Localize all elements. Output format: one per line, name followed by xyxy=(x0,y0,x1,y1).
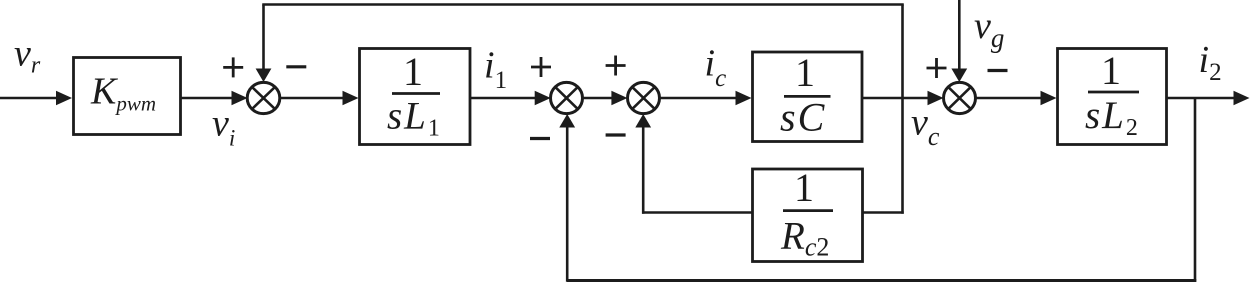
wire 1/sL2 to output xyxy=(1167,97,1237,100)
svg-text:ic: ic xyxy=(705,43,727,93)
plus sign at sum3 xyxy=(606,56,626,76)
wire 1/sL1 to sum2 xyxy=(470,97,537,100)
wire vc tap vertical xyxy=(901,5,904,214)
arrowhead into 1/sL2 xyxy=(1041,91,1057,106)
arrowhead into sum2 bottom xyxy=(559,114,575,128)
plus sign at sum4 xyxy=(927,58,947,78)
wire sum4 to block 1/sL2 xyxy=(976,97,1044,100)
minus sign at sum2 xyxy=(530,137,550,140)
plus sign at sum2 xyxy=(531,57,551,77)
summing junction sum3 circle xyxy=(628,82,660,113)
arrowhead into sum2 left xyxy=(535,91,551,106)
arrowhead into sum4 left xyxy=(928,91,944,106)
wire vg input vertical xyxy=(958,0,961,70)
minus sign at sum4 xyxy=(988,69,1008,72)
svg-text:vc: vc xyxy=(911,102,940,152)
svg-text:sC: sC xyxy=(780,95,826,140)
summing junction sum2 circle xyxy=(551,82,583,113)
arrowhead into sum3 left xyxy=(611,91,627,106)
wire output tap vertical xyxy=(1194,98,1197,282)
wire bottom feedback horizontal xyxy=(567,279,1196,282)
wire Rc2 input horizontal xyxy=(861,211,904,214)
wire sum2 to sum3 xyxy=(583,97,615,100)
wire Kpwm to sum1 xyxy=(180,97,234,100)
plus sign at sum1 xyxy=(223,57,243,77)
wire input to Kpwm xyxy=(0,97,60,100)
svg-text:1: 1 xyxy=(795,50,815,95)
svg-text:1: 1 xyxy=(794,165,814,210)
svg-text:i1: i1 xyxy=(484,45,507,95)
arrowhead into 1/sC xyxy=(736,91,752,106)
arrowhead into sum3 bottom xyxy=(635,114,651,128)
block 1/sC rect xyxy=(753,52,863,142)
wire top feedback horizontal xyxy=(262,3,904,6)
block 1/sC fraction bar xyxy=(784,95,831,98)
svg-text:1: 1 xyxy=(403,49,423,94)
arrowhead into 1/sL1 xyxy=(343,91,359,106)
arrowhead output i2 xyxy=(1234,91,1250,106)
svg-text:vi: vi xyxy=(212,103,235,151)
block 1/sL1 fraction bar xyxy=(392,92,440,95)
wire Rc2 output vertical into sum3 xyxy=(642,127,645,214)
summing junction sum4 circle xyxy=(944,82,976,113)
arrowhead into sum1 top xyxy=(256,69,272,83)
summing junction sum1 circle xyxy=(247,82,280,113)
wire sum1 to block 1/sL1 xyxy=(280,97,347,100)
svg-text:1: 1 xyxy=(1101,48,1121,93)
wire top feedback vertical into sum1 xyxy=(262,5,265,71)
wire sum3 to block 1/sC xyxy=(660,97,739,100)
block 1/sL2 rect xyxy=(1058,49,1167,145)
block 1/Rc2 fraction bar xyxy=(783,209,833,212)
svg-text:vr: vr xyxy=(14,33,41,79)
arrowhead into sum4 top (vg) xyxy=(951,69,967,83)
arrowhead into Kpwm xyxy=(56,91,72,106)
minus sign at sum3 xyxy=(606,133,626,136)
block 1/sL2 fraction bar xyxy=(1088,91,1139,94)
block 1/Rc2 rect xyxy=(753,169,863,262)
block Kpwm rect xyxy=(74,58,181,135)
svg-text:i2: i2 xyxy=(1199,39,1222,86)
wire 1/sC to sum4 xyxy=(862,97,930,100)
arrowhead into sum1 left xyxy=(232,91,248,106)
wire Rc2 output horizontal xyxy=(642,211,753,214)
minus sign at sum1 xyxy=(286,65,306,68)
block 1/sL1 rect xyxy=(360,49,471,145)
svg-text:vg: vg xyxy=(974,5,1004,53)
wire bottom feedback vertical into sum2 xyxy=(566,127,569,282)
